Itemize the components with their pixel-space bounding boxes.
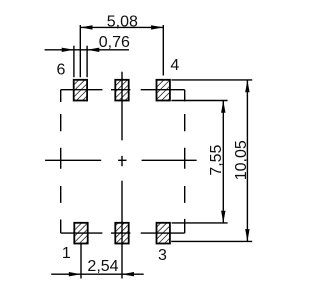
center cross vertical dash — [121, 156, 123, 166]
extension line pad4 bottom edge for 7,55 — [171, 100, 227, 102]
svg-text:3: 3 — [158, 247, 167, 264]
arrowhead 0,76 left (points right) — [62, 48, 74, 52]
main horizontal centerline y=160.3 left segment — [45, 159, 101, 161]
wire top row centerline segment 2 — [111, 89, 130, 91]
extension line pad3 top edge for 7,55 — [172, 222, 228, 224]
body outline left dashed edge x=60.7 — [60, 90, 62, 233]
svg-text:1: 1 — [62, 245, 71, 262]
pad 6 — [74, 80, 87, 101]
wire bottom row centerline segment 2 — [111, 232, 130, 234]
extension line pad4 center x=163.3 for 5,08 — [162, 25, 164, 76]
dimension line 7,55 vertical — [222, 101, 224, 223]
extension line pad6 left edge for 0,76 — [73, 46, 75, 77]
pad 5 — [115, 80, 128, 101]
wire top row centerline segment 3 — [141, 89, 185, 91]
middle column vertical centerline upper segment — [121, 72, 123, 141]
svg-text:7,55: 7,55 — [208, 144, 225, 175]
dimension line 10,05 vertical — [246, 80, 248, 241]
extension line pad6 right edge for 0,76 — [86, 46, 88, 77]
wire top row centerline y=89.7 segment 1 — [61, 89, 103, 91]
svg-text:2,54: 2,54 — [87, 258, 118, 275]
arrowhead 5,08 left — [80, 25, 92, 29]
main horizontal centerline right segment — [142, 159, 197, 161]
pad 1 — [74, 223, 87, 244]
arrowhead 7,55 bottom (points down) — [221, 211, 225, 223]
arrowhead 2,54 right (points left) — [122, 272, 134, 276]
extension line pad6 center x=80.3 for 5,08 — [79, 25, 81, 77]
extension line pad4 top edge for 10,05 — [171, 79, 252, 81]
svg-text:4: 4 — [170, 57, 179, 74]
wire bottom row centerline y=233.1 segment 1 — [61, 232, 103, 234]
svg-text:0,76: 0,76 — [99, 34, 130, 51]
pad 4 — [157, 80, 170, 101]
svg-text:10,05: 10,05 — [233, 140, 250, 180]
svg-text:5,08: 5,08 — [107, 14, 138, 31]
svg-text:6: 6 — [57, 61, 66, 78]
arrowhead 10,05 bottom (points down) — [245, 229, 249, 241]
middle column vertical centerline lower segment through pad 2 down to 2,54 dim — [121, 181, 123, 279]
pad 3 — [157, 223, 170, 244]
pad 2 — [115, 223, 128, 244]
dimension line 0,76 — [45, 49, 129, 51]
extension line pad3 bottom edge for 10,05 — [171, 240, 252, 242]
arrowhead 5,08 right — [151, 25, 163, 29]
arrowhead 7,55 top (points up) — [221, 101, 225, 113]
arrowhead 0,76 right (points left) — [87, 48, 99, 52]
dimension line 5,08 — [80, 26, 163, 28]
arrowhead 10,05 top (points up) — [245, 80, 249, 92]
arrowhead 2,54 left (points right) — [69, 272, 81, 276]
pad 1 extension line down to 2,54 dim — [80, 244, 82, 279]
dimension line 2,54 — [51, 273, 144, 275]
wire bottom row centerline segment 3 — [141, 232, 185, 234]
center cross horizontal dash — [118, 159, 126, 161]
body outline right dashed edge x=184.7 — [184, 90, 186, 233]
